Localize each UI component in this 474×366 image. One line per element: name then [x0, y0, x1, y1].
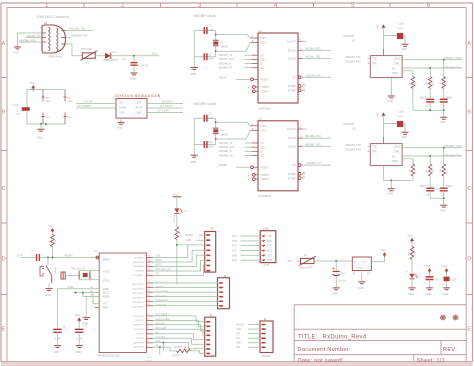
svg-text:R4: R4 [416, 81, 418, 85]
svg-text:MSCMH Circuit: MSCMH Circuit [194, 14, 216, 18]
svg-text:CANH: CANH [393, 58, 400, 61]
U1 pin stub and pin number 8 [147, 342, 154, 344]
U1 pin stub and pin number 6 [147, 333, 154, 335]
svg-text:GND: GND [408, 292, 414, 296]
svg-text:F2: F2 [86, 60, 90, 64]
wire txd [368, 146, 371, 148]
svg-text:IC1: IC1 [367, 274, 371, 276]
svg-text:SI: SI [260, 152, 263, 154]
U1 pin stub and pin number 19 [147, 266, 154, 268]
svg-text:GND: GND [267, 260, 272, 262]
svg-text:4.7K: 4.7K [415, 251, 417, 256]
wire U1 PC3 to J2 pin 4 [153, 296, 219, 298]
wire xtal2 to OSC2 pin [216, 43, 251, 52]
U1 pin stub and pin number 5 [147, 328, 154, 330]
svg-text:0.1uF: 0.1uF [398, 23, 405, 26]
junction AVCC 1 [74, 292, 76, 294]
junction reset 1 [47, 257, 49, 259]
svg-text:500mA-PTC: 500mA-PTC [300, 267, 313, 270]
svg-text:J1: J1 [210, 313, 213, 317]
capacitor C14 polarized [333, 272, 340, 276]
svg-text:MSCMH_CS: MSCMH_CS [219, 55, 233, 57]
wire AGND to gnd symbol [85, 296, 87, 317]
svg-text:OUT: OUT [363, 262, 368, 264]
svg-text:LNAF: LNAF [45, 100, 51, 103]
svg-text:S3: S3 [220, 129, 224, 132]
svg-text:D2: D2 [184, 211, 188, 213]
svg-text:(SS)PB2: (SS)PB2 [136, 271, 145, 273]
svg-text:C: C [2, 186, 6, 192]
pad U$5 upper [63, 90, 66, 102]
wire j3 pin3 from led junction [177, 244, 206, 246]
svg-text:MSCMM_SO: MSCMM_SO [219, 155, 233, 157]
wire vcc into VDD pin [383, 124, 385, 138]
wire loop bottom [27, 123, 65, 125]
svg-text:AREF: AREF [103, 288, 110, 291]
svg-text:MSCMM_RXD: MSCMM_RXD [346, 149, 362, 152]
svg-text:C6: C6 [63, 327, 67, 329]
wire CANL [402, 67, 462, 69]
svg-text:C14: C14 [341, 273, 346, 275]
ground for termination [440, 117, 447, 119]
ground for joystick [118, 122, 125, 124]
pin INT [298, 164, 301, 167]
svg-text:RXD: RXD [267, 241, 272, 243]
svg-text:AREF: AREF [68, 286, 75, 289]
wire RS to slope resistor [402, 71, 413, 77]
U1 pin stub and pin number 25 [147, 291, 154, 293]
svg-text:(T1)PD5: (T1)PD5 [136, 338, 145, 340]
svg-text:XTAL1 JU1 HC: XTAL1 JU1 HC [70, 267, 86, 270]
wire crystal gnd rail [193, 118, 195, 155]
VCC arrow [382, 24, 386, 27]
svg-text:MSCMM_RXD: MSCMM_RXD [305, 135, 321, 138]
svg-text:MSCMH_CANH: MSCMH_CANH [445, 57, 462, 60]
svg-text:GND: GND [440, 208, 446, 212]
ground for regulator [358, 282, 365, 284]
svg-text:GND: GND [358, 267, 363, 269]
VCC arrow col1 [410, 238, 414, 241]
wire M1 row [241, 235, 262, 237]
pin TX1RTS [252, 178, 255, 181]
svg-text:10uF 16v: 10uF 16v [337, 281, 347, 283]
wire termination rail 2 [430, 197, 444, 199]
svg-text:6: 6 [427, 2, 431, 9]
connector X1 right pin stubs [61, 31, 66, 45]
svg-text:(INT1)PD3: (INT1)PD3 [134, 329, 145, 331]
wire TXCAN [298, 145, 303, 147]
wire joy-down [76, 107, 116, 109]
wire J4 row [248, 324, 262, 326]
junction CANL [429, 155, 431, 157]
svg-text:(ADC5)PC5: (ADC5)PC5 [133, 305, 145, 308]
svg-text:X1: X1 [44, 21, 48, 25]
svg-text:RS: RS [392, 69, 396, 71]
svg-text:D: D [467, 257, 471, 263]
svg-text:GND: GND [82, 322, 88, 326]
svg-text:TXCAN: TXCAN [288, 145, 296, 148]
wire jumper drop 2 [162, 343, 164, 351]
diode D1 [105, 53, 111, 59]
resistor R8 [428, 164, 432, 176]
svg-text:MSCMM Circuit: MSCMM Circuit [194, 102, 216, 106]
svg-text:4: 4 [248, 175, 250, 177]
wire CANL [402, 155, 462, 157]
wire R8 to cap C19 [429, 176, 431, 188]
svg-text:CANH: CANH [393, 146, 400, 149]
junction xtal2 [215, 138, 217, 140]
resistor R7 slope [411, 164, 415, 176]
svg-text:RESET: RESET [65, 255, 74, 258]
connector J1 [205, 317, 216, 356]
svg-text:GND: GND [443, 292, 449, 296]
svg-text:100: 100 [440, 81, 442, 85]
wire C14 to gnd [335, 276, 337, 288]
wire db9 pin right 2 [66, 37, 72, 39]
M1 pin CTS [262, 254, 265, 256]
svg-text:RX1BF: RX1BF [288, 178, 296, 180]
svg-text:VREF: VREF [392, 161, 399, 163]
wire R9 to cap C20 [443, 176, 445, 188]
svg-text:(TXD)PD1: (TXD)PD1 [134, 320, 144, 322]
svg-text:TX0RTS: TX0RTS [260, 87, 269, 89]
svg-text:RXCAN: RXCAN [288, 49, 296, 52]
svg-text:R5: R5 [446, 81, 448, 85]
wire vss rail [384, 179, 413, 181]
U1 pin stub and pin number 23 [147, 282, 154, 284]
svg-text:MSCMM_CANH: MSCMM_CANH [445, 145, 463, 148]
svg-text:4.7K: 4.7K [409, 81, 411, 86]
ground for D5 [409, 288, 416, 290]
svg-text:OSC2: OSC2 [260, 43, 267, 45]
svg-text:C18: C18 [441, 106, 446, 108]
svg-text:C9: C9 [208, 53, 212, 56]
wire C21 to gnd [429, 280, 431, 288]
svg-text:A: A [467, 41, 471, 47]
wire J4 row [248, 333, 262, 335]
svg-text:0.1uF: 0.1uF [398, 111, 405, 114]
svg-text:COM: COM [264, 264, 270, 267]
VCC arrow xtal caps [77, 317, 81, 320]
wire joy-leaf [147, 112, 183, 114]
svg-text:1uF: 1uF [435, 280, 440, 282]
svg-text:VCC: VCC [376, 24, 379, 29]
wire CLKOUT [298, 40, 303, 42]
svg-text:MCP2515: MCP2515 [259, 194, 272, 198]
wire regulator gnd [361, 271, 363, 282]
IC U4 MCP2515 [258, 33, 298, 103]
capacitor C7 [75, 329, 84, 332]
IC U5 MCP2515 [258, 121, 298, 191]
frame column ticks [84, 3, 390, 8]
wire junction down to C10 [133, 56, 135, 62]
svg-text:22pF: 22pF [208, 146, 214, 149]
VCC arrow reset [50, 228, 54, 231]
pin TX1RTS [252, 90, 255, 93]
wire reset row left [21, 257, 36, 259]
U1 pin stub and pin number 24 [147, 287, 154, 289]
wire RXCAN [298, 137, 303, 139]
svg-text:RESET: RESET [54, 267, 56, 275]
wire j3 pin4 [153, 250, 206, 262]
svg-text:RxDuino_Rev4: RxDuino_Rev4 [323, 334, 367, 340]
svg-text:C10: C10 [122, 58, 127, 61]
svg-text:RESET: RESET [186, 235, 194, 237]
svg-text:16MHz: 16MHz [220, 133, 228, 136]
pin TX0RTS [252, 173, 255, 176]
junction reset 2 [51, 257, 53, 259]
wire CANH2 junction down [443, 148, 445, 165]
junction xtal1 [215, 34, 217, 36]
pin INT [298, 76, 301, 79]
wire MSCMH_SI pin [245, 63, 252, 65]
svg-text:22pF: 22pF [208, 29, 214, 32]
wire xtal2 node [215, 134, 217, 145]
wire CANH [402, 147, 462, 149]
svg-text:RESET: RESET [219, 164, 228, 167]
svg-text:U2: U2 [352, 40, 356, 43]
wire switch drop [47, 258, 49, 265]
wire diode to 5Vin [111, 55, 159, 57]
wire C19 to rail2 [429, 191, 431, 198]
wire rail2 to gnd [443, 198, 445, 205]
connector J2 [218, 278, 230, 309]
wire CLKOUT [298, 128, 303, 130]
svg-text:RTS: RTS [232, 236, 237, 238]
svg-text:16MHz: 16MHz [220, 46, 228, 49]
wire R10 to J1 pin8 [190, 351, 206, 353]
wire GND pin stub [95, 307, 100, 309]
svg-text:CTS: CTS [267, 236, 272, 238]
svg-text:330: 330 [180, 232, 182, 236]
svg-text:CS: CS [156, 274, 160, 276]
wire termination gnd rail [413, 109, 444, 111]
svg-text:MSCMH_SO: MSCMH_SO [219, 68, 232, 70]
svg-text:DB9 Plug: DB9 Plug [49, 55, 62, 59]
svg-text:VCC: VCC [103, 304, 108, 306]
LED D2 [174, 208, 179, 213]
M1 pin GND [262, 259, 265, 261]
svg-text:E: E [467, 327, 471, 333]
wire CANH junction down [443, 60, 445, 77]
svg-text:(ADC4)PC4: (ADC4)PC4 [133, 301, 145, 304]
svg-text:GND: GND [440, 120, 446, 124]
svg-text:GND: GND [401, 135, 407, 139]
resistor R11 [410, 246, 414, 259]
svg-text:4.7K: 4.7K [409, 169, 411, 174]
svg-text:TX0RTS: TX0RTS [260, 175, 269, 177]
ground for switch [46, 289, 53, 291]
svg-text:B: B [2, 110, 6, 116]
svg-text:1: 1 [45, 2, 49, 9]
resistor R6 [428, 77, 432, 89]
svg-text:5Vin: 5Vin [152, 51, 158, 55]
svg-text:MCP2551: MCP2551 [344, 35, 356, 38]
svg-text:0.1uF: 0.1uF [77, 338, 84, 341]
svg-text:MSCMH_INT: MSCMH_INT [307, 74, 322, 77]
svg-text:C15: C15 [399, 27, 404, 30]
svg-text:VREF: VREF [392, 73, 399, 75]
wire rxd [368, 150, 371, 152]
svg-text:MSCMM_CANL: MSCMM_CANL [445, 155, 463, 158]
svg-text:MSCMM_TXD: MSCMM_TXD [346, 144, 362, 147]
svg-text:U1: U1 [94, 249, 98, 253]
svg-text:5: 5 [351, 2, 355, 9]
svg-text:R8: R8 [433, 169, 435, 173]
U1 pin stub and pin number 21 [147, 275, 154, 277]
wire vcc to C22 [446, 273, 448, 277]
wire R4 bottom to rail [412, 88, 414, 110]
svg-text:R7: R7 [416, 169, 418, 173]
wire fuse to diode [95, 55, 105, 57]
svg-text:GND: GND [387, 192, 393, 196]
svg-text:GND: GND [426, 292, 432, 296]
wire RXCAN [298, 49, 303, 51]
resistor R4 slope [411, 77, 415, 89]
capacitor C11 [204, 27, 207, 34]
svg-text:U5: U5 [259, 117, 263, 121]
pad U$6 upper [41, 90, 44, 102]
svg-text:REV:: REV: [443, 347, 457, 353]
svg-text:INT: INT [292, 165, 296, 167]
svg-text:DXB-0902 Connector: DXB-0902 Connector [37, 15, 70, 19]
svg-text:AGND: AGND [103, 296, 110, 299]
wire R2 to reset net [51, 247, 53, 258]
connector X1 left pin stubs [42, 33, 46, 42]
IC U2 MCP2551 box [370, 56, 402, 78]
svg-text:POWER: POWER [262, 355, 272, 358]
svg-text:MSCMH_CANL: MSCMH_CANL [445, 67, 462, 70]
wire vcc to R11 [411, 243, 413, 247]
wire group C row 8 with resistor [153, 347, 177, 351]
svg-text:Sheet: 1/1: Sheet: 1/1 [417, 358, 446, 364]
U1 pin stub and pin number 9 [147, 346, 154, 348]
svg-text:RESET: RESET [219, 76, 228, 79]
crystal S2 [213, 40, 219, 46]
pin RX1BF [298, 89, 301, 92]
wire loop gnd drop [40, 124, 42, 129]
junction loop bottom 2 [45, 123, 47, 125]
svg-text:GND: GND [103, 308, 108, 310]
wire j3 pin2 [196, 239, 206, 241]
svg-text:MSCMM_INT: MSCMM_INT [307, 162, 322, 165]
wire reset row mid [40, 257, 96, 259]
U1 pin stub and pin number 3 [147, 319, 154, 321]
svg-text:(INT0)PD2: (INT0)PD2 [134, 325, 145, 327]
wire J4 row [248, 328, 262, 330]
svg-text:DTR: DTR [18, 255, 23, 258]
svg-text:(AIN1)PD7: (AIN1)PD7 [134, 346, 145, 349]
pin RX0BF [298, 172, 301, 175]
capacitor C18 560pF [440, 99, 448, 102]
wire C18 to rail [443, 102, 445, 110]
ground for DB9 [14, 47, 21, 49]
svg-text:J4: J4 [264, 317, 267, 321]
svg-text:SI: SI [260, 64, 263, 66]
svg-text:(T0)PD4: (T0)PD4 [136, 333, 145, 335]
U1 pin stub and pin number 4 [147, 324, 154, 326]
svg-text:MSCMM_TXD: MSCMM_TXD [305, 143, 321, 146]
wire vcc to R2 [51, 232, 53, 234]
svg-text:GND: GND [236, 343, 241, 345]
svg-text:ADC_BAL_CS: ADC_BAL_CS [156, 268, 171, 271]
wire vss pin down (overrides stub) [383, 166, 385, 181]
M1 pin TXD [262, 245, 265, 247]
svg-text:COM: COM [263, 227, 269, 231]
wire XTAL1 [79, 279, 99, 280]
wire regulator out to vcc [371, 257, 384, 262]
connector X1 contacts column 1 [49, 27, 51, 51]
U1 reset pin stub [97, 257, 100, 259]
VCC arrow [382, 112, 386, 115]
wire reset pin [236, 166, 250, 168]
wire M1 row [241, 259, 262, 261]
svg-text:AVCC: AVCC [103, 292, 110, 295]
wire R6 to cap C17 [429, 88, 431, 99]
junction VCC on loop [32, 89, 34, 91]
crystal Q1 [79, 271, 90, 278]
capacitor C10 [131, 63, 138, 66]
svg-text:CANL: CANL [394, 150, 401, 153]
svg-text:C11: C11 [208, 25, 213, 28]
wire AGND [83, 293, 99, 297]
svg-text:560pF: 560pF [420, 97, 427, 99]
wire U1 PC4 to J2 pin 5 [153, 300, 219, 302]
wire j3 pin6 [153, 260, 206, 271]
svg-text:TX1RTS: TX1RTS [260, 91, 269, 93]
ground for C6 [54, 346, 61, 348]
title block box [294, 305, 466, 362]
wire xtal1 top [194, 117, 216, 119]
wire CANL2 junction down [429, 156, 431, 164]
svg-text:OSC1: OSC1 [260, 126, 267, 128]
svg-text:ICSP-TX 1K: ICSP-TX 1K [174, 347, 187, 349]
wire fuse to regulator [314, 260, 352, 262]
junction CANL [429, 67, 431, 69]
ground for cap [402, 132, 409, 134]
capacitor C6 [53, 329, 62, 332]
svg-text:RXCAN: RXCAN [288, 137, 296, 140]
junction rail gnd [443, 109, 445, 111]
junction rail 2 [443, 197, 445, 199]
pin RX1BF [298, 177, 301, 180]
junction C14 tap [335, 260, 337, 262]
wire D5 to gnd [411, 279, 413, 288]
U1 pin stub and pin number 7 [147, 337, 154, 339]
wire rail to gnd [443, 110, 445, 117]
svg-text:(MISO)PB4: (MISO)PB4 [133, 262, 144, 264]
svg-text:GND: GND [37, 136, 43, 140]
wire rxd [368, 62, 371, 64]
svg-text:VCC: VCC [75, 313, 81, 317]
junction xtal2 [215, 50, 217, 52]
connector J3 [205, 232, 216, 273]
svg-text:RX0BF: RX0BF [288, 174, 296, 176]
svg-text:(ADC0)PC0: (ADC0)PC0 [133, 283, 145, 286]
svg-text:R9: R9 [446, 169, 448, 173]
wire cap to gnd [403, 124, 405, 132]
svg-text:(AIN0)PD6: (AIN0)PD6 [134, 341, 145, 344]
resistor R5 [442, 77, 446, 89]
svg-text:SCK: SCK [156, 256, 161, 258]
svg-text:DOWN: DOWN [119, 107, 127, 110]
wire AREF [58, 288, 100, 290]
svg-text:GND: GND [75, 350, 81, 354]
svg-text:JU1-2: JU1-2 [146, 360, 153, 362]
resistor R2 [51, 235, 55, 247]
svg-text:VCC: VCC [267, 250, 272, 252]
svg-text:GND: GND [190, 160, 196, 164]
